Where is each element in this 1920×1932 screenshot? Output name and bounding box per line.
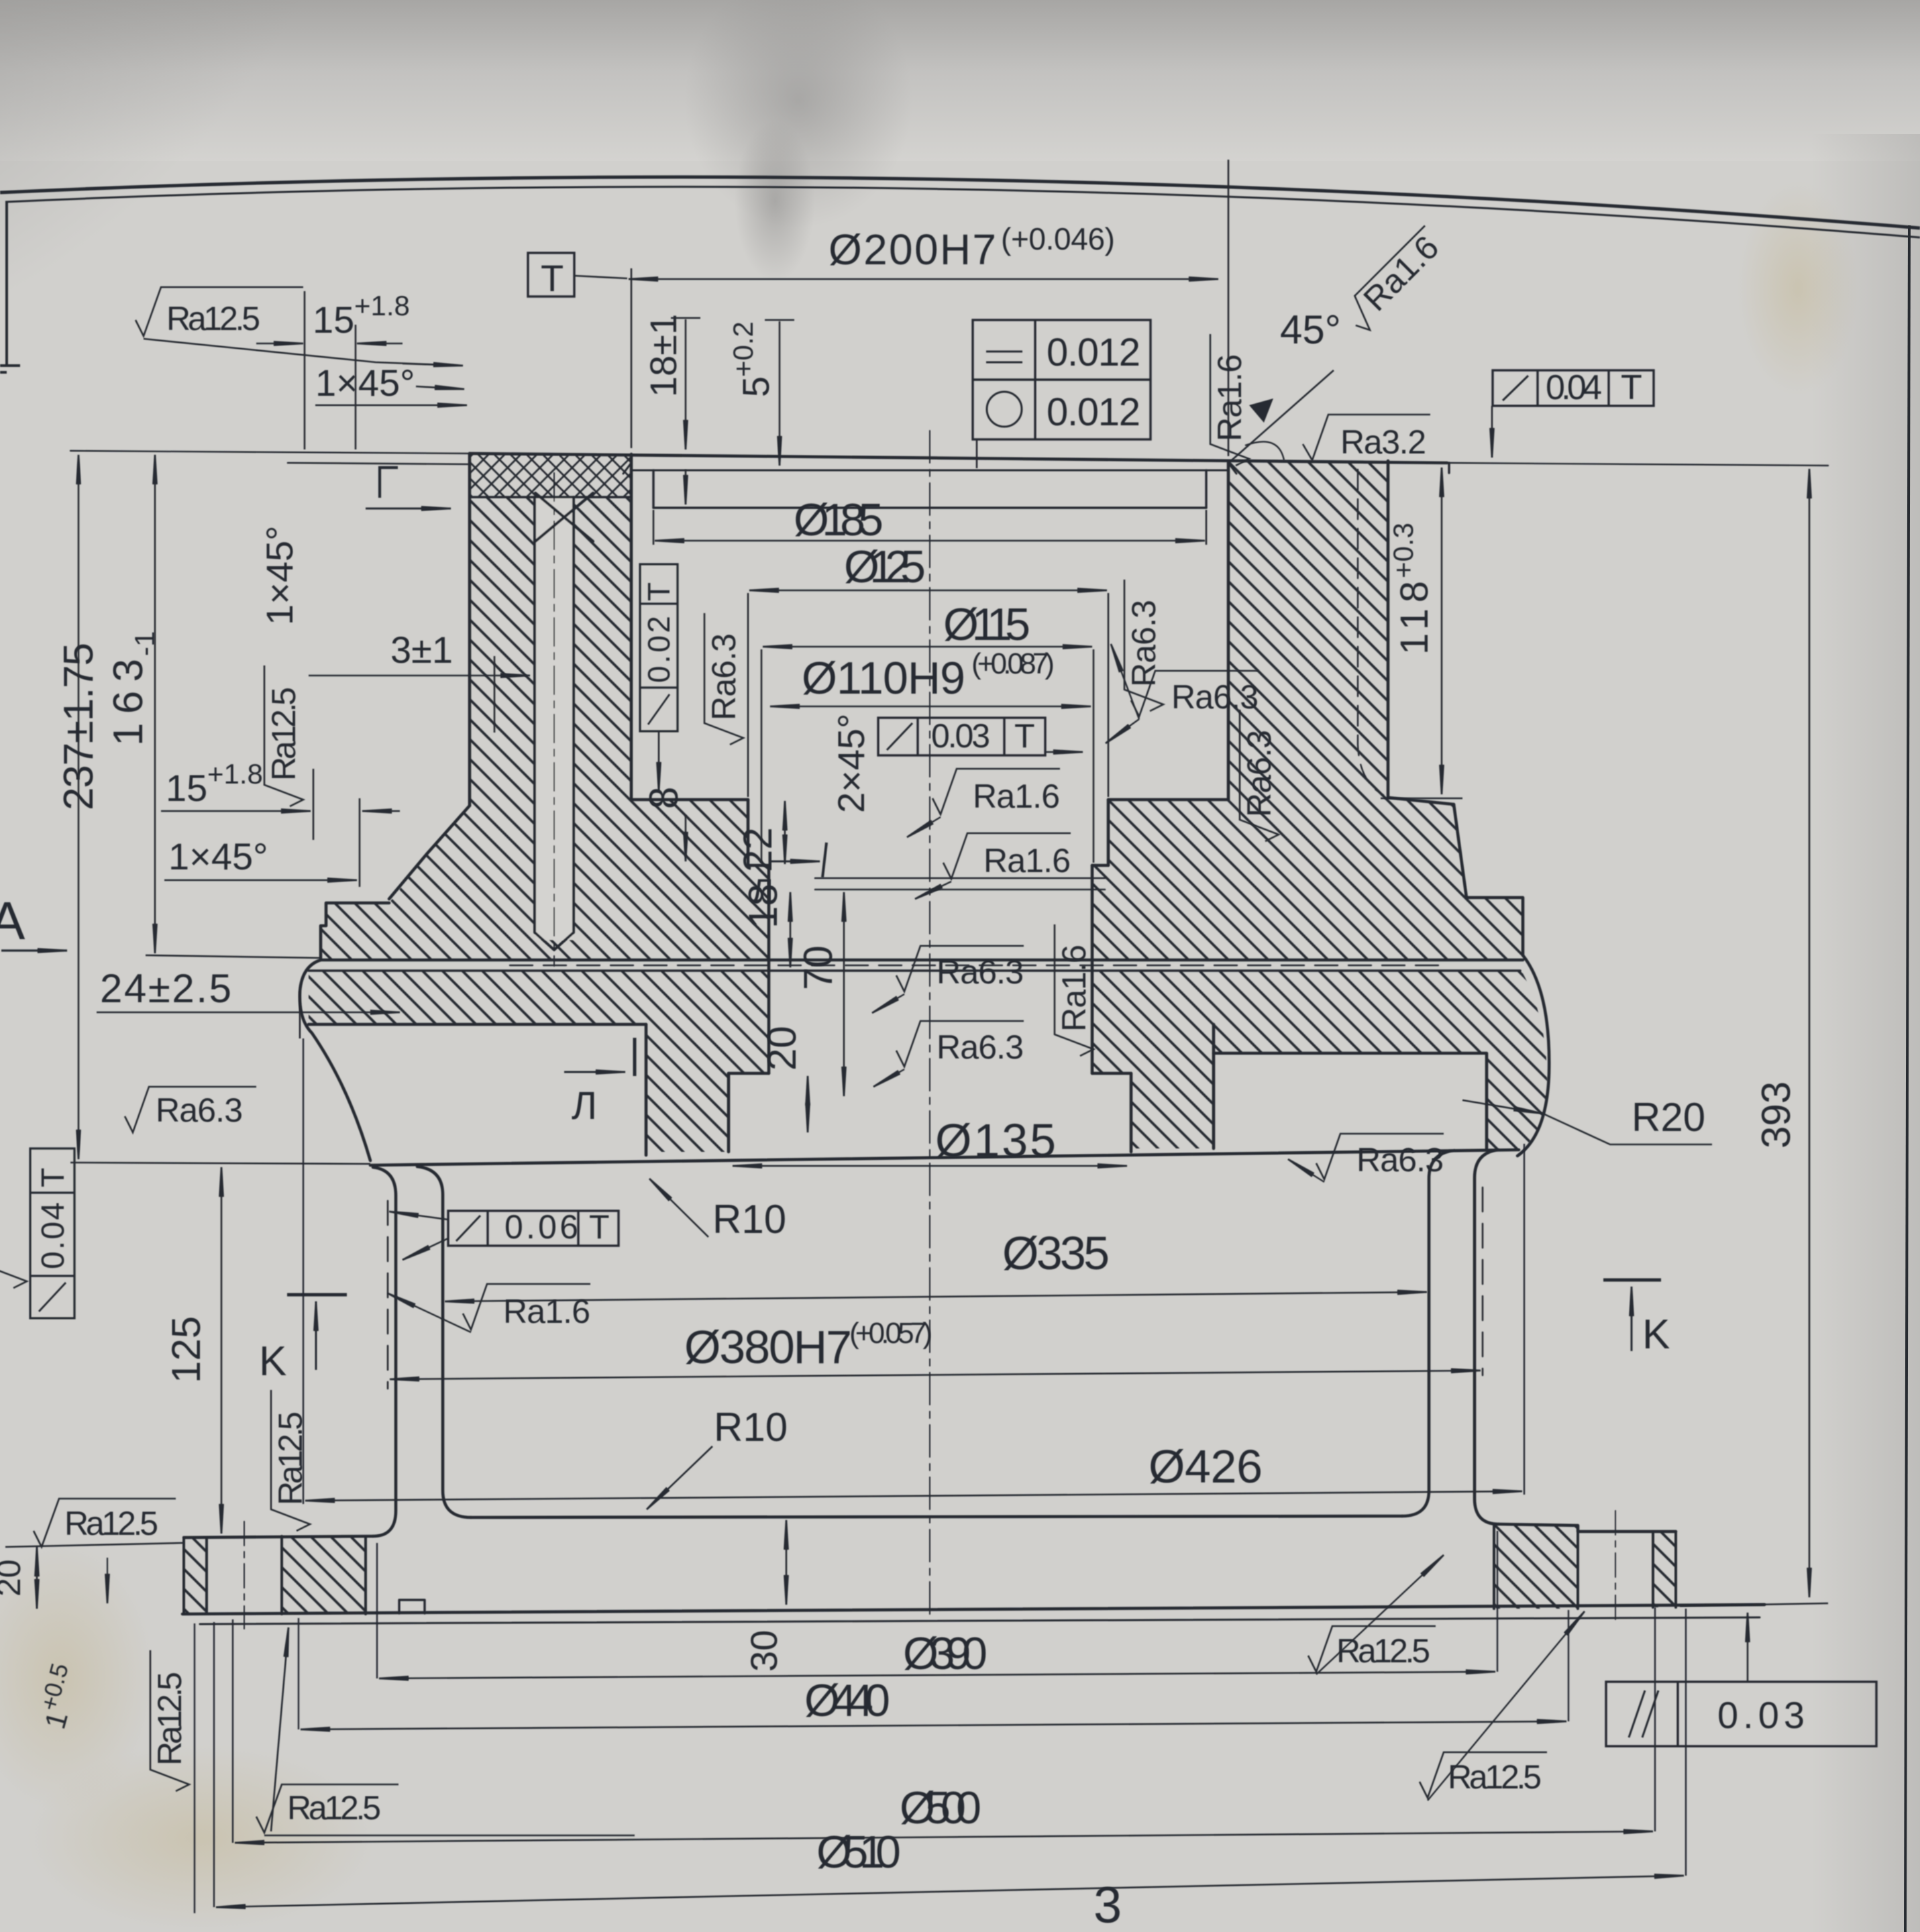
rotated roughness Ra1.6 right bore wall [1210,334,1249,466]
part outline: right flare diagonal [1454,804,1466,898]
label 118+0.3 rotated [1387,523,1436,655]
svg-text:Ra6.3: Ra6.3 [156,1091,243,1129]
svg-text:A: A [0,891,25,951]
roughness Ra12.5 above flange [34,1499,176,1547]
svg-text:1×45°: 1×45° [258,525,301,625]
svg-text:T: T [1621,368,1642,407]
part outline: web bottom left [309,1023,646,1026]
part outline: flange top left ring [184,1536,373,1538]
leader 45° chamfer [1232,370,1334,460]
dimension 125 [221,1167,223,1534]
svg-text:0.012: 0.012 [1047,331,1140,374]
label 393 rotated [1754,1081,1799,1148]
svg-text:1×45°: 1×45° [168,835,268,877]
keyway X mark [535,493,593,541]
part outline: Ø135 step shoulders [729,1072,1131,1075]
dimension 8 [685,815,687,861]
part outline: web bottom right [1214,1053,1487,1148]
datum K left [287,1293,347,1297]
part outline: boss walls [646,1024,1214,1155]
dimension 163-1 [154,455,156,953]
part outline: flange verticals left [184,1536,366,1614]
svg-text:Ø135: Ø135 [935,1114,1056,1167]
extension of top face to left [70,451,470,453]
svg-text:Л: Л [572,1084,597,1128]
svg-text:24±2.5: 24±2.5 [100,966,231,1011]
svg-text:125: 125 [164,1316,209,1383]
dimension 1+0.5 tick [107,1558,108,1603]
sheet frame right border [1905,225,1909,1932]
svg-text:T: T [1014,717,1035,755]
svg-text:5: 5 [735,376,777,397]
svg-text:(+0.057): (+0.057) [849,1317,932,1350]
part outline: left flange top edge [321,903,389,960]
label Ra1.6 rotated 45 on chamfer leader [1339,224,1450,335]
svg-text:237±1.75: 237±1.75 [56,643,102,810]
ext line tread to left [70,1163,370,1164]
part outline: right hub outer wall [1387,461,1390,798]
label 8 rotated [641,787,686,809]
hatch: bottom flange left rim strip [184,1538,207,1613]
svg-text:R20: R20 [1632,1095,1705,1140]
bottom face second line [200,1617,1760,1624]
svg-text:Ra12.5: Ra12.5 [151,1672,189,1766]
part outline: Ø185 recess walls [653,470,1206,508]
svg-text:163: 163 [105,659,152,746]
hatch: left hub cross-hatch block (top) [470,454,631,497]
leader R10 lower [647,1446,712,1509]
dimension 20 center [807,1076,809,1132]
part outline: cylinder right outer wall R10 [1475,1150,1499,1524]
label 1+0.5 rotated [31,1660,87,1733]
dimension 30 [786,1520,788,1605]
leader from T box to Ø200 dim [574,276,627,278]
dimension Ø426 [305,1491,1522,1501]
part outline: web left edge bulge [300,960,370,1161]
dimension 393 [1809,469,1811,1597]
dimension 237±1.75 [78,455,80,1159]
view arrow A [1,949,67,951]
svg-text:Ø500: Ø500 [900,1782,981,1833]
roughness Ra12.5 rotated at Ø426 ext [271,1390,310,1531]
part outline: crosshatch block bottom line [470,496,631,498]
part outline: Ø200 bore floor [631,798,1228,802]
part outline: bore wall left (Ø200) [630,454,633,800]
bolt circle axis dash-dot bottom right [1615,1511,1616,1623]
leader from Ra12.5 to part [144,339,462,366]
small tick at right end of face [1448,463,1450,473]
svg-text:Ra12.5: Ra12.5 [64,1505,158,1542]
roughness Ra6.3 right with fan [1131,671,1259,716]
svg-text:T: T [36,1168,71,1187]
svg-text:Ø110H9: Ø110H9 [802,653,965,704]
dimension Ø110H9 [770,706,1091,708]
frame parallelism 0.03 [1606,1682,1876,1746]
bore top corner chamfers 1×45 [623,463,1236,474]
svg-text:Ra1.6: Ra1.6 [1211,354,1248,441]
rotated roughness Ra1.6 at Ø135 wall [1055,924,1094,1056]
svg-text:0.03: 0.03 [1717,1694,1805,1736]
bolt circle axis dash-dot bottom left [244,1521,245,1629]
dimension 1×45° lower [164,879,357,881]
svg-text:Ø380H7: Ø380H7 [684,1321,852,1373]
dimension Ø380H7 [390,1371,1481,1379]
roughness Ra6.3 on tread right [1316,1134,1444,1179]
hatch: wheel web left + boss left wall [309,971,769,1152]
dimension 118+0.3 [1441,468,1443,794]
ext lines for 15+1.8 top [305,291,356,449]
svg-text:Ø125: Ø125 [844,541,926,592]
svg-text:Ø390: Ø390 [903,1628,988,1679]
hatch: wheel web right + boss right wall + rim corner [1092,971,1547,1152]
roughness Ra12.5 bottom right #2 [1420,1752,1547,1798]
svg-text:0.012: 0.012 [1047,390,1140,434]
partial rotated roughness at left edge [0,1154,27,1288]
bolt hole white strip in left hub column [535,497,574,940]
section mark Л small top [822,843,826,877]
small notch on bottom face [399,1600,425,1613]
sheet frame top border (bowed) [0,177,1920,372]
svg-text:Ra6.3: Ra6.3 [937,1028,1024,1066]
dimension Ø185 [653,510,1206,545]
label 163-1 rotated [105,631,160,746]
bolt hole axis dash-dot in hub [553,473,555,966]
svg-text:3: 3 [1094,1877,1122,1932]
svg-text:(+0.046): (+0.046) [1001,221,1115,256]
svg-text:0.04: 0.04 [36,1202,71,1269]
svg-text:T: T [589,1208,610,1246]
extension of top face to right for 393/118 dims [1447,463,1828,466]
dimension Ø135 [733,1165,1127,1167]
section mark Г [380,468,398,498]
svg-text:Ra6.3: Ra6.3 [705,633,743,720]
hidden dashed Ø380 bore lines [388,1187,1483,1389]
frame 0.03 T [878,718,1045,755]
dimension 15+1.8 lower [313,769,360,887]
label 237±1.75 rotated [56,643,102,810]
roughness Ra1.6 #1 [932,769,1060,814]
hatch: bottom flange left trapezoid [282,1536,366,1614]
svg-text:Ra12.5: Ra12.5 [1448,1758,1542,1796]
hatch: left hub column + left flange section [321,497,769,960]
roughness Ra12.5 lower left horizontal [256,1784,398,1833]
groove thin lines in bore [815,878,1105,890]
label R20 leader [1462,1100,1543,1114]
svg-text:1×45°: 1×45° [315,362,415,404]
sheet frame left corner [0,201,20,372]
part outline: cylinder right inner wall (Ø335) R10 [1402,1150,1454,1516]
svg-text:Ra6.3: Ra6.3 [1356,1141,1444,1179]
part outline: right shoulder horizontal [1389,798,1454,804]
part outline: rim right R20 bulge [1517,955,1549,1156]
svg-text:70: 70 [796,945,841,990]
svg-text:15: 15 [313,299,354,341]
roughness Ra12.5 top left [136,287,303,336]
section mark Л mid [633,1038,637,1076]
hidden dashed line in groove [510,965,1442,966]
svg-text:(+0.087): (+0.087) [971,647,1055,680]
dimension 20 left edge [36,1547,38,1609]
roughness Ra1.6 lower left [463,1284,590,1330]
label 18±1 rotated [642,314,684,397]
roughness Ra12.5 rotated lower left [150,1650,189,1791]
dimension Ø115 [763,646,1092,648]
rotated frame 0.02 T [640,564,678,731]
leader R10 upper [649,1179,708,1237]
svg-text:Ra12.5: Ra12.5 [265,687,303,781]
dimension Ø335 [445,1292,1427,1301]
svg-text:0.03: 0.03 [931,717,990,755]
label 20 rotated [759,1026,804,1071]
svg-text:45°: 45° [1280,307,1341,352]
svg-text:+0.2: +0.2 [727,321,759,377]
label 125 rotated [164,1316,209,1383]
svg-text:Ø426: Ø426 [1149,1440,1263,1493]
dimension 3±1 [309,675,530,677]
svg-text:K: K [259,1338,286,1385]
ext line flange top to left [5,1543,184,1547]
svg-text:15: 15 [166,767,207,809]
part outline: left flare diagonal [389,806,470,899]
rotated frame 0.04 T at left edge [30,1148,74,1318]
svg-text:0.02: 0.02 [641,616,676,683]
label 2×45° rotated [830,713,872,813]
label 22 rotated [735,827,780,872]
dimension 18±1 vertical [671,317,700,319]
svg-text:+0.3: +0.3 [1387,523,1419,578]
svg-text:Ra6.3: Ra6.3 [937,953,1024,991]
hatch: bottom flange right rim strip [1653,1532,1676,1607]
datum box T [528,253,574,297]
svg-text:2×45°: 2×45° [830,713,872,813]
dimension 70 [843,892,845,1096]
dimension 18 [790,892,792,967]
frame 0.04 T top right [1493,370,1654,406]
svg-text:Л: Л [751,872,774,910]
dimension Ø200H7 line [629,278,1218,280]
roughness Ra12.5 rotated (hub wall) [264,665,303,806]
part outline: flange bottom line [321,959,1523,962]
svg-text:Ra1.6: Ra1.6 [1055,945,1093,1032]
label 70 rotated [796,945,841,990]
dimension Ø500 [235,1831,1653,1843]
svg-text:Ra3.2: Ra3.2 [1340,423,1426,461]
part outline: Ø110H9 bore walls [769,865,1092,1073]
hatch: right hub column + right flange section + 45-deg chamfer [1092,462,1523,960]
tolerance frame 0.012/0.012 [973,320,1151,439]
svg-text:R10: R10 [714,1405,788,1450]
dimension Ø440 [301,1721,1566,1729]
svg-text:20: 20 [759,1026,804,1071]
part outline: cylinder left outer wall with R10 fillets [373,1167,396,1536]
dimension 5+0.2 vertical [765,319,794,321]
label 5+0.2 rotated [727,321,777,397]
dimension 22 [784,801,786,864]
svg-text:Ø510: Ø510 [816,1827,901,1878]
dimension 24±2.5 [97,1012,400,1014]
part outline: Ø125 floor [748,864,1108,867]
frame 0.06 T [448,1211,619,1246]
roughness Ra1.6 #2 [943,833,1071,879]
svg-text:Ra1.6: Ra1.6 [973,777,1060,815]
labels in rotated frame left edge [36,1202,71,1269]
roughness Ra6.3 mid #1 [896,946,1024,991]
svg-text:T: T [541,257,564,299]
rotated roughness Ra6.3 (Ø125 wall) [704,613,743,745]
svg-text:Ra1.6: Ra1.6 [503,1293,590,1330]
part outline: cavity inner floor [471,1516,1402,1517]
svg-text:30: 30 [743,1630,785,1672]
part outline: right step and edge [1466,898,1523,955]
dimension Ø510 [216,1876,1684,1907]
svg-text:Ø115: Ø115 [943,599,1030,650]
svg-text:T: T [641,582,676,601]
part outline: tread / cylinder top line [370,1150,1519,1165]
part outline: flange verticals right [1494,1525,1676,1609]
roughness Ra12.5 bottom right #1 [1308,1626,1436,1672]
svg-text:Ra6.3: Ra6.3 [1125,600,1163,687]
ext line left bore wall up [631,268,633,448]
label 30 rotated [743,1630,785,1672]
part outline: bottom face [182,1605,1764,1614]
svg-text:393: 393 [1754,1081,1799,1148]
ext line flange bottom to left [146,955,321,958]
svg-text:118: 118 [1393,581,1436,655]
part outline: flange top right ring [1499,1524,1676,1532]
part outline: top face [470,453,1447,463]
svg-text:22: 22 [735,827,780,872]
rotated roughness Ra6.3 (right inner) [1124,580,1163,711]
label 1×45° rotated mid-left [258,525,301,625]
svg-text:-1: -1 [129,631,160,656]
roughness Ra6.3 mid #2 [896,1021,1024,1067]
groove line under flange [309,969,1520,972]
svg-text:R10: R10 [712,1197,786,1242]
part outline: left hub outer wall [468,453,472,806]
svg-text:8: 8 [641,787,686,809]
part outline: Ø135 bore walls [729,1073,1131,1152]
part outline: bore wall right (Ø200) [1227,463,1230,800]
hatch: bottom flange right trapezoid [1494,1525,1578,1609]
svg-text:Ra6.3: Ra6.3 [1171,678,1259,716]
dimension 15+1.8 top [256,343,303,345]
label 20 rotated left edge [0,1559,28,1597]
svg-text:+1.8: +1.8 [354,290,410,321]
bolt hole V drill tip in left column [535,497,574,950]
part outline: Ø125 counterbore walls [748,800,1108,865]
labels in rotated frame 0.02 T [641,616,676,683]
ext line right bore wall up [1228,160,1230,456]
part outline: Ø185 recess shoulder line [631,470,1228,472]
svg-text:Ra12.5: Ra12.5 [1336,1632,1430,1670]
svg-text:Ø335: Ø335 [1002,1227,1110,1279]
hidden dashed line inside right column [1358,470,1383,795]
part centerline dash-dot [929,431,930,1620]
svg-text:0.06: 0.06 [504,1208,578,1246]
svg-text:Ø185: Ø185 [794,494,884,545]
svg-text:Ra12.5: Ra12.5 [166,300,260,337]
svg-text:Ra12.5: Ra12.5 [287,1789,381,1827]
dimension 1×45° top [315,405,467,407]
svg-text:Ø440: Ø440 [804,1675,890,1726]
dimension Ø390 [379,1672,1495,1678]
svg-text:0.04: 0.04 [1546,368,1602,407]
svg-text:18±1: 18±1 [642,314,684,397]
svg-text:K: K [1642,1311,1670,1358]
svg-text:20: 20 [0,1559,28,1597]
roughness Ra3.2 [1303,415,1430,460]
svg-text:+1.8: +1.8 [207,758,263,790]
rotated roughness Ra6.3 (right outer low) [1240,710,1279,841]
svg-text:Ra1.6: Ra1.6 [983,842,1071,879]
label 18 rotated [741,883,786,928]
second line under left top face [288,463,470,464]
dimension Ø125 [749,590,1107,592]
roughness Ra6.3 left [125,1087,256,1132]
datum K right [1603,1279,1661,1282]
part outline: Ø185 recess floor [653,506,1206,508]
part outline: cylinder left inner wall (Ø335) R10 [417,1167,471,1517]
svg-text:3±1: 3±1 [390,629,453,671]
svg-text:Ra6.3: Ra6.3 [1240,730,1278,817]
